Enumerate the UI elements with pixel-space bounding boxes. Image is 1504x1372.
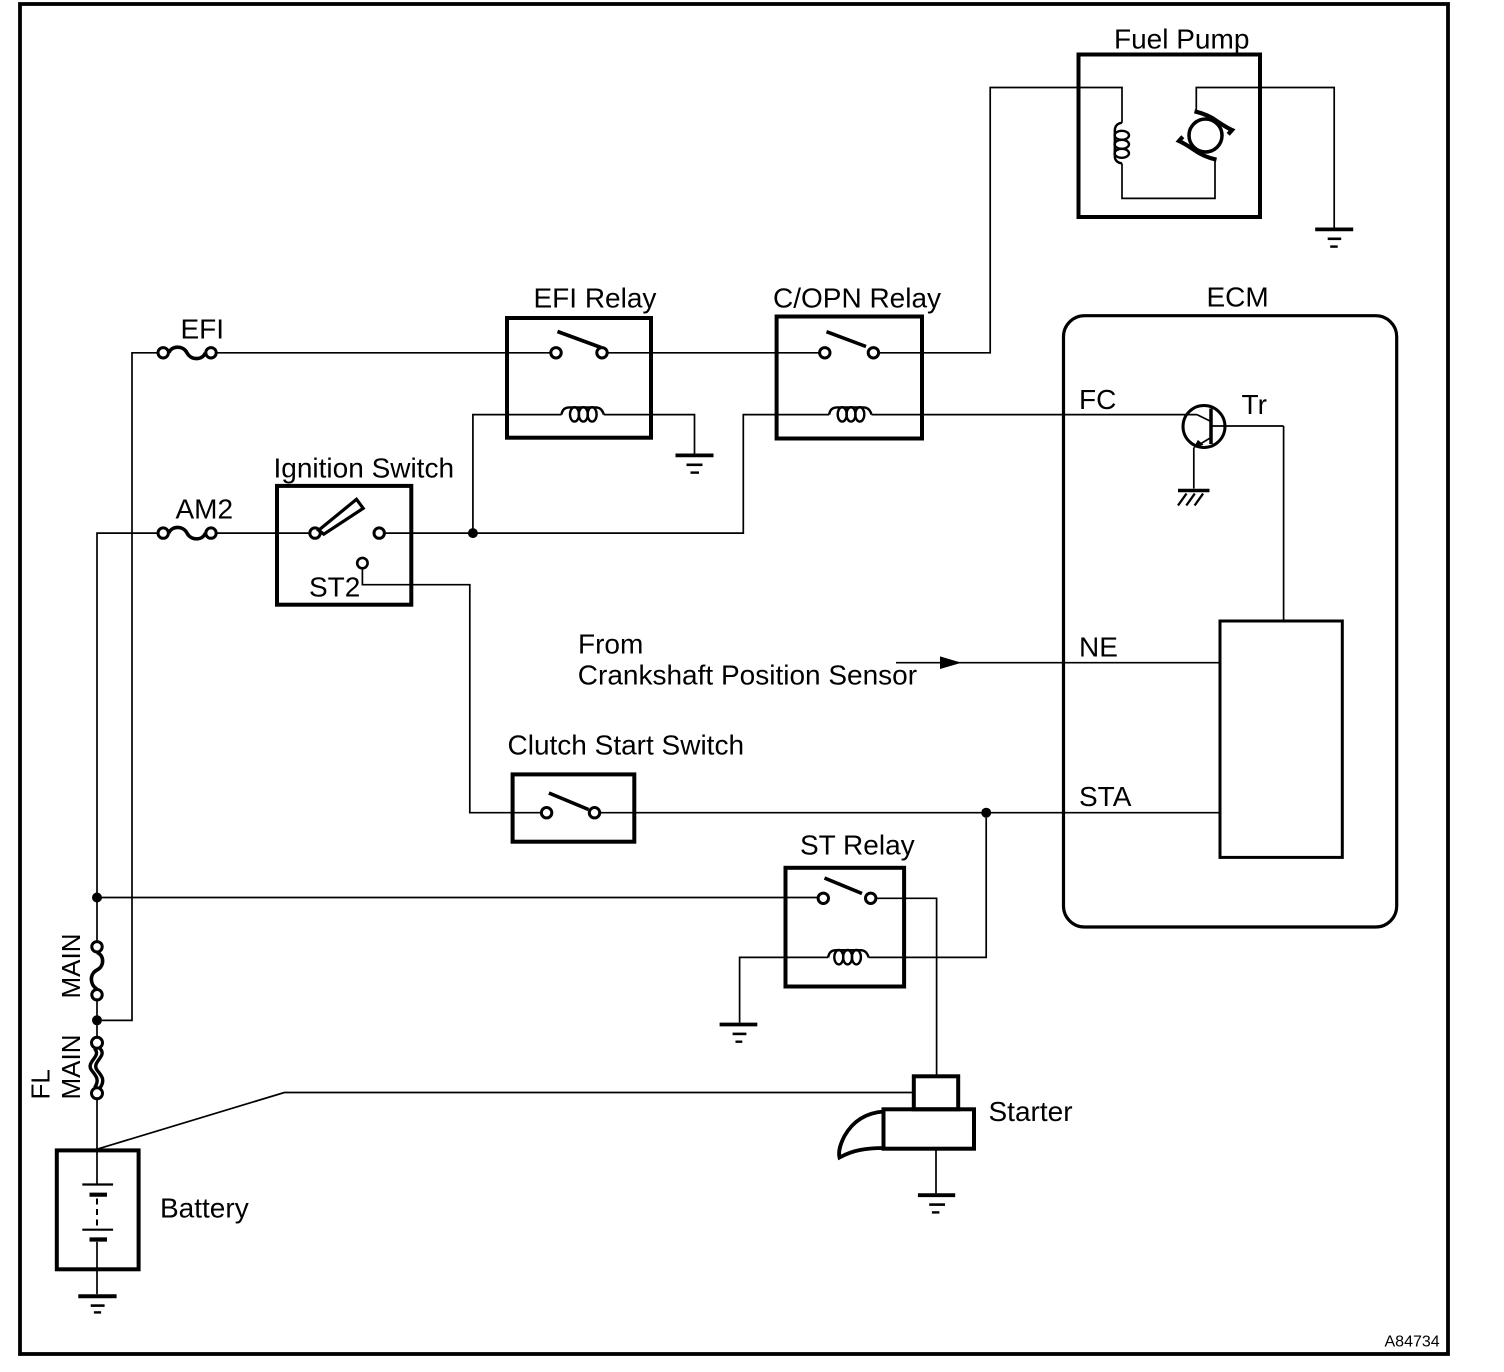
svg-text:ECM: ECM	[1207, 282, 1269, 313]
junction dot (battery bus)	[92, 893, 102, 903]
wire: ST2 to clutch start switch	[362, 569, 541, 813]
wire: C/OPN coil to ECM pin FC	[872, 414, 1198, 416]
ECM box	[1064, 316, 1397, 927]
relay EFI box	[507, 318, 651, 438]
ground (starter)	[918, 1195, 955, 1212]
battery cell symbol	[82, 1185, 113, 1295]
starter drive housing	[839, 1112, 884, 1158]
svg-text:MAIN: MAIN	[56, 1035, 86, 1100]
inductor (fuel pump coil)	[1115, 123, 1129, 164]
ground (EFI relay)	[676, 455, 714, 472]
svg-text:ST2: ST2	[309, 572, 360, 603]
wire: starter to ground	[935, 1149, 937, 1194]
relay ST switch arm	[825, 878, 863, 894]
wire: EFI feed branch from battery bus	[102, 353, 158, 1021]
relay C/OPN coil	[829, 407, 871, 421]
svg-text:AM2: AM2	[176, 494, 234, 525]
svg-text:C/OPN Relay: C/OPN Relay	[773, 283, 941, 314]
ground (transistor, chassis)	[1178, 491, 1210, 506]
junction dot (MAIN / FL)	[92, 1015, 102, 1025]
wire: junction to EFI relay coil	[473, 415, 562, 533]
ground (ST relay)	[720, 1025, 758, 1042]
wire: AM2 fuse to ignition switch	[216, 532, 310, 534]
wire: ST relay contact to starter solenoid	[876, 898, 937, 1076]
relay C/OPN box	[777, 317, 922, 439]
svg-text:Ignition Switch: Ignition Switch	[274, 453, 455, 484]
fusible link FL	[90, 1037, 103, 1099]
label From Crankshaft Position Sensor	[578, 628, 917, 690]
relay EFI contact left	[551, 348, 561, 358]
ground (battery)	[78, 1296, 116, 1312]
relay EFI contact right	[597, 348, 607, 358]
arrowhead (NE input)	[940, 656, 962, 669]
ignition switch box	[277, 486, 411, 605]
svg-text:From: From	[578, 628, 643, 659]
clutch start switch contact left	[541, 808, 551, 818]
battery box	[57, 1150, 139, 1269]
svg-text:EFI: EFI	[181, 314, 225, 345]
wire: ST relay coil to STA junction	[869, 818, 987, 958]
ECM driver block	[1220, 621, 1342, 857]
clutch start switch contact right	[589, 808, 599, 818]
wire: NE input	[896, 662, 1220, 664]
wire: MAIN fuse to FL	[96, 1000, 98, 1038]
wire: clutch switch to ECM pin STA	[600, 812, 1220, 814]
wire: pump feed to choke coil	[1079, 88, 1123, 123]
svg-text:STA: STA	[1079, 781, 1132, 812]
relay C/OPN contact left	[820, 348, 830, 358]
wire: C/OPN relay to fuel pump	[879, 88, 1079, 353]
ignition switch terminal ST2	[357, 558, 367, 568]
wire: ST relay coil to ground	[740, 957, 829, 1022]
relay C/OPN switch arm	[827, 332, 867, 347]
wire: FL to battery	[96, 1099, 98, 1185]
relay C/OPN contact right	[868, 348, 878, 358]
svg-text:Battery: Battery	[160, 1193, 249, 1224]
fuse AM2	[158, 527, 216, 538]
junction dot (STA / ST relay)	[981, 808, 991, 818]
relay ST contact left	[818, 893, 828, 903]
ignition switch contact output	[374, 528, 384, 538]
transistor Tr	[1183, 406, 1284, 489]
wire: junction to C/OPN relay coil	[473, 415, 829, 533]
svg-text:MAIN: MAIN	[56, 934, 86, 999]
svg-text:ST Relay: ST Relay	[800, 830, 915, 861]
ignition switch lever	[319, 499, 364, 534]
wire: battery positive to starter solenoid	[97, 1093, 914, 1150]
clutch start switch arm	[549, 793, 589, 810]
svg-text:A84734: A84734	[1385, 1334, 1440, 1351]
clutch start switch box	[513, 774, 635, 841]
junction dot (ignition output)	[468, 528, 478, 538]
wire: transistor collector to driver block	[1283, 426, 1285, 621]
relay EFI coil	[562, 407, 604, 421]
wire: EFI relay to C/OPN relay	[607, 352, 819, 354]
ground (fuel pump)	[1315, 229, 1353, 246]
fuel pump box	[1079, 55, 1261, 218]
fuse EFI	[158, 347, 216, 358]
wire: EFI relay coil to ground	[604, 415, 695, 454]
svg-text:Tr: Tr	[1242, 389, 1267, 420]
motor M (fuel pump)	[1179, 111, 1232, 159]
svg-text:Fuel Pump: Fuel Pump	[1114, 24, 1249, 55]
starter body	[884, 1109, 975, 1148]
wire: coil to motor	[1122, 161, 1215, 199]
svg-text:NE: NE	[1079, 631, 1118, 662]
relay ST box	[786, 868, 905, 987]
wire: motor to pump output	[1196, 88, 1260, 112]
svg-text:FL: FL	[26, 1069, 56, 1099]
svg-text:FC: FC	[1079, 384, 1116, 415]
wire: ignition output to junction	[385, 532, 473, 534]
svg-text:Starter: Starter	[989, 1096, 1073, 1127]
wire: battery bus to AM2 fuse	[97, 533, 158, 941]
wire: battery bus to ST relay contact	[97, 897, 818, 899]
svg-text:Crankshaft Position Sensor: Crankshaft Position Sensor	[578, 659, 917, 690]
svg-text:EFI Relay: EFI Relay	[534, 283, 657, 314]
starter solenoid	[914, 1076, 958, 1109]
relay ST coil	[828, 950, 868, 964]
relay EFI switch arm	[558, 332, 602, 348]
wire: EFI fuse to EFI relay contact	[216, 352, 551, 354]
fuse MAIN	[91, 942, 102, 1000]
ignition switch contact AM2	[310, 528, 320, 538]
svg-text:Clutch Start Switch: Clutch Start Switch	[508, 730, 745, 761]
wire: fuel pump to ground	[1260, 88, 1334, 228]
relay ST contact right	[866, 893, 876, 903]
